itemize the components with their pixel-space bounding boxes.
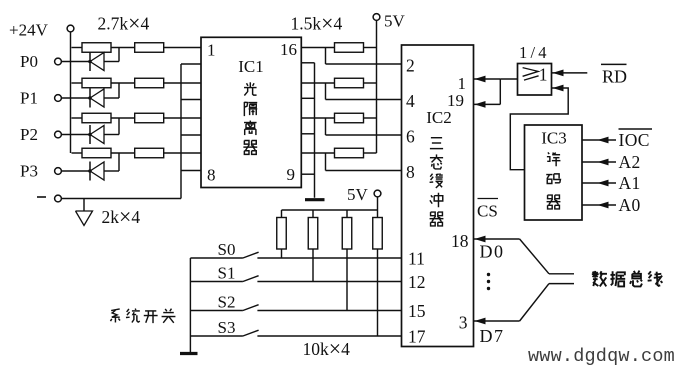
svg-text:15: 15: [408, 301, 426, 321]
svg-text:2k×4: 2k×4: [102, 205, 141, 229]
svg-text:10k×4: 10k×4: [303, 337, 351, 361]
svg-text:16: 16: [280, 40, 297, 59]
svg-text:1.5k×4: 1.5k×4: [291, 12, 343, 36]
svg-text:6: 6: [406, 127, 415, 147]
svg-text:8: 8: [406, 162, 415, 182]
svg-text:RD: RD: [602, 67, 627, 87]
svg-text:CS: CS: [477, 202, 498, 221]
svg-text:S1: S1: [218, 264, 236, 283]
svg-text:www.dgdqw.com: www.dgdqw.com: [528, 346, 675, 367]
svg-text:17: 17: [408, 326, 426, 346]
svg-text:18: 18: [451, 231, 469, 251]
svg-text:A1: A1: [619, 173, 641, 193]
svg-text:IC3: IC3: [541, 129, 567, 148]
svg-text:4: 4: [406, 91, 415, 111]
svg-text:1: 1: [539, 64, 548, 84]
svg-text:IC1: IC1: [238, 57, 264, 76]
svg-text:5V: 5V: [384, 12, 406, 31]
svg-text:12: 12: [408, 272, 426, 292]
svg-text:D0: D0: [480, 242, 505, 262]
svg-text:3: 3: [459, 313, 468, 333]
svg-text:S3: S3: [218, 318, 236, 337]
svg-text:2.7k×4: 2.7k×4: [98, 12, 150, 36]
svg-text:A0: A0: [619, 195, 641, 215]
svg-text:P1: P1: [20, 89, 38, 108]
svg-text:IOC: IOC: [619, 130, 650, 150]
svg-text:P0: P0: [20, 52, 38, 71]
svg-text:5V: 5V: [347, 185, 369, 204]
svg-text:11: 11: [408, 248, 425, 268]
svg-text:P2: P2: [20, 125, 38, 144]
svg-text:A2: A2: [619, 152, 641, 172]
svg-text:8: 8: [207, 166, 216, 185]
svg-text:S0: S0: [218, 240, 236, 259]
svg-text:2: 2: [406, 56, 415, 76]
svg-text:1/4: 1/4: [519, 43, 550, 62]
svg-text:IC2: IC2: [426, 108, 452, 127]
svg-text:D7: D7: [480, 326, 505, 346]
svg-text:+24V: +24V: [9, 21, 49, 40]
svg-text:9: 9: [287, 165, 296, 184]
svg-text:1: 1: [207, 41, 216, 60]
svg-text:P3: P3: [20, 162, 38, 181]
svg-text:S2: S2: [218, 293, 236, 312]
